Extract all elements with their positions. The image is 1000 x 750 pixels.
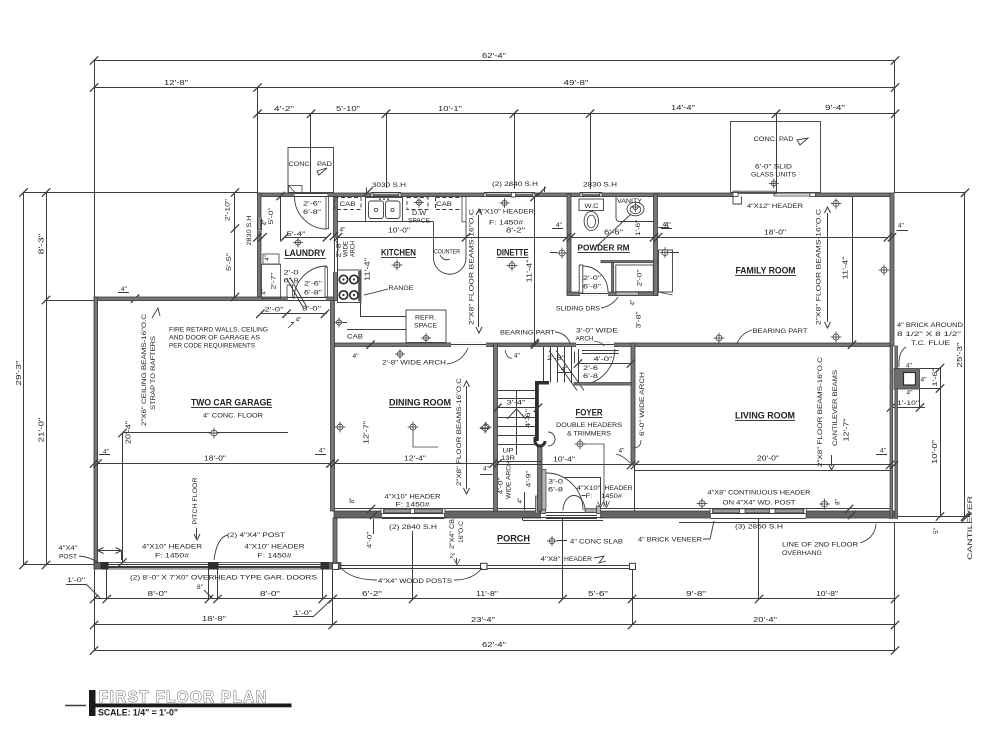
- svg-text:6'-8": 6'-8": [304, 290, 323, 297]
- svg-text:& TRIMMERS: & TRIMMERS: [567, 431, 611, 438]
- dimension 62'-4" overall top: [94, 60, 895, 62]
- svg-text:SLIDING DRS: SLIDING DRS: [556, 306, 600, 313]
- svg-text:4": 4": [483, 466, 490, 473]
- svg-text:1450#: 1450#: [601, 493, 622, 500]
- svg-text:2'-6": 2'-6": [303, 201, 322, 208]
- bottom dim row A: [94, 598, 895, 600]
- svg-text:5'-10": 5'-10": [336, 106, 361, 113]
- svg-text:1'-0": 1'-0": [294, 610, 313, 617]
- porch left wall segment: [333, 518, 337, 563]
- svg-text:4"X4" WOOD POSTS: 4"X4" WOOD POSTS: [378, 578, 453, 585]
- svg-text:11'-8": 11'-8": [476, 591, 499, 598]
- svg-text:3'-4": 3'-4": [507, 400, 527, 407]
- svg-text:8": 8": [835, 499, 842, 505]
- svg-text:4": 4": [619, 448, 626, 455]
- dimension 29'-3" left: [23, 193, 25, 566]
- living room header line: [635, 470, 890, 472]
- svg-text:(2) 2840 S.H: (2) 2840 S.H: [492, 181, 538, 188]
- svg-text:6'-8": 6'-8": [583, 284, 602, 291]
- svg-text:F: 1450#: F: 1450#: [155, 553, 189, 560]
- garage left exterior wall: [94, 297, 98, 569]
- svg-text:18'-8": 18'-8": [202, 616, 227, 623]
- svg-text:62'-4": 62'-4": [482, 53, 507, 60]
- dimension 1'-6" / 10'-0" right: [940, 368, 942, 517]
- range: [338, 270, 362, 303]
- svg-text:HEADER: HEADER: [564, 556, 592, 563]
- front entry door: [541, 510, 600, 518]
- svg-text:14'-4": 14'-4": [671, 105, 696, 112]
- window position dim 2'-10 5'-5 laundry: [234, 193, 236, 298]
- svg-text:BEARING PART: BEARING PART: [500, 330, 555, 337]
- stair right wall lower: [538, 447, 543, 511]
- svg-text:4": 4": [319, 448, 326, 455]
- laundry closet: [262, 264, 281, 298]
- svg-text:4": 4": [262, 220, 269, 226]
- svg-text:6'-6": 6'-6": [604, 230, 624, 237]
- svg-text:4"X8": 4"X8": [541, 556, 562, 563]
- svg-text:ARCH: ARCH: [350, 241, 357, 257]
- title FIRST FLOOR PLAN: [65, 705, 86, 707]
- svg-text:BEARING PART: BEARING PART: [753, 328, 808, 335]
- svg-text:1'-10": 1'-10": [897, 400, 920, 407]
- svg-text:62'-4": 62'-4": [482, 642, 507, 649]
- svg-text:4": 4": [264, 255, 271, 261]
- svg-text:T.C. FLUE: T.C. FLUE: [911, 340, 951, 347]
- svg-text:4"X10" HEADER: 4"X10" HEADER: [385, 494, 441, 501]
- conc pad right: [731, 122, 821, 193]
- svg-text:5'-5": 5'-5": [226, 252, 233, 271]
- svg-text:PAD: PAD: [317, 161, 332, 168]
- label 4 conc slab: [547, 536, 557, 546]
- porch front edge: [339, 565, 631, 567]
- svg-text:8'-2": 8'-2": [506, 228, 526, 235]
- svg-text:5'-6": 5'-6": [588, 591, 609, 598]
- svg-text:10'-4": 10'-4": [553, 457, 576, 464]
- svg-text:F: 1450#: F: 1450#: [396, 502, 430, 509]
- svg-text:29'-3": 29'-3": [16, 360, 23, 386]
- svg-text:2830 S.H: 2830 S.H: [583, 182, 617, 189]
- svg-text:4": 4": [121, 286, 128, 293]
- svg-text:2'-6": 2'-6": [304, 281, 323, 288]
- bearing wall foyer-family: [498, 343, 891, 347]
- svg-text:DOUBLE HEADERS: DOUBLE HEADERS: [556, 422, 622, 429]
- centerline marks family: [831, 198, 842, 209]
- svg-text:4": 4": [340, 227, 347, 234]
- foyer left wall: [494, 343, 498, 511]
- svg-text:REFR.: REFR.: [415, 315, 436, 322]
- kitchen lower counter: [360, 302, 362, 316]
- svg-text:2"X8" FLOOR BEAMS-16"O.C: 2"X8" FLOOR BEAMS-16"O.C: [817, 357, 824, 467]
- bottom dim row C 62'-4: [94, 650, 895, 652]
- svg-text:12'-7": 12'-7": [844, 418, 851, 442]
- dining centerline marks: [335, 422, 346, 433]
- svg-text:6'-8": 6'-8": [303, 209, 322, 216]
- vanity leader line: [597, 214, 631, 246]
- svg-text:6'-0" WIDE ARCH: 6'-0" WIDE ARCH: [639, 372, 646, 436]
- svg-text:PER CODE REQUIREMENTS: PER CODE REQUIREMENTS: [169, 343, 255, 350]
- stair rail: [535, 381, 549, 385]
- svg-text:4'-0": 4'-0": [367, 532, 374, 549]
- laundry stoop: [289, 186, 303, 193]
- foyer under-stair closet walls: [565, 477, 601, 479]
- svg-text:CAB: CAB: [340, 201, 357, 208]
- windows (3) 2850 SH living front: [711, 508, 806, 518]
- garage top / laundry bottom wall: [94, 297, 334, 301]
- powder closet walls: [601, 261, 658, 263]
- svg-text:FAMILY ROOM: FAMILY ROOM: [736, 266, 796, 276]
- porch entry steps: [523, 517, 603, 519]
- svg-text:12'-4": 12'-4": [404, 456, 427, 463]
- svg-text:4" CONC SLAB: 4" CONC SLAB: [570, 539, 624, 546]
- right witness lines: [895, 192, 965, 194]
- svg-text:4": 4": [907, 390, 914, 397]
- svg-text:DINING ROOM: DINING ROOM: [389, 398, 451, 408]
- svg-text:4": 4": [556, 222, 563, 229]
- svg-text:4'-0": 4'-0": [594, 356, 614, 363]
- svg-text:LINE OF 2ND FLOOR: LINE OF 2ND FLOOR: [782, 542, 858, 549]
- svg-text:SCALE: 1/4" = 1'-0": SCALE: 1/4" = 1'-0": [98, 708, 178, 718]
- powder room bottom wall: [567, 292, 658, 296]
- svg-text:CONC. PAD: CONC. PAD: [754, 136, 794, 143]
- svg-text:CAB: CAB: [436, 201, 453, 208]
- svg-text:AND DOOR OF GARAGE AS: AND DOOR OF GARAGE AS: [169, 335, 260, 342]
- closet bottom wall: [574, 383, 632, 386]
- svg-text:4'-2": 4'-2": [274, 106, 295, 113]
- furnace chase: [659, 250, 673, 292]
- svg-text:4" BRICK AROUND: 4" BRICK AROUND: [897, 322, 963, 329]
- svg-text:8 1/2" X 8 1/2": 8 1/2" X 8 1/2": [897, 331, 962, 338]
- kitchen sink: [366, 198, 403, 222]
- TC flue: [894, 369, 920, 390]
- window pair 2840 SH dinette: [484, 193, 535, 197]
- svg-text:4"X10": 4"X10": [577, 485, 602, 492]
- svg-text:5": 5": [933, 527, 940, 534]
- svg-text:(2) 2840 S.H: (2) 2840 S.H: [389, 524, 437, 531]
- svg-text:2'-8": 2'-8": [547, 355, 566, 362]
- svg-text:1'-6": 1'-6": [635, 220, 642, 236]
- svg-text:FOYER: FOYER: [576, 408, 603, 418]
- svg-text:4": 4": [353, 353, 360, 360]
- svg-text:POWDER RM: POWDER RM: [578, 243, 630, 253]
- laundry-garage door: [287, 285, 293, 297]
- dimension row 4'-2 5'-10 10'-1 14'-4 9'-4: [258, 113, 896, 115]
- laundry left exterior wall: [258, 193, 262, 301]
- svg-text:20'-0": 20'-0": [757, 456, 780, 463]
- svg-text:3'-0" WIDE: 3'-0" WIDE: [576, 328, 619, 335]
- svg-text:6'-8: 6'-8: [284, 278, 299, 285]
- foyer closet shelf: [582, 350, 619, 352]
- svg-text:2830 S.H: 2830 S.H: [246, 215, 253, 245]
- svg-text:3'-0: 3'-0: [548, 479, 564, 486]
- svg-text:W.C: W.C: [585, 203, 600, 210]
- svg-text:8'-0": 8'-0": [148, 591, 169, 598]
- svg-text:2"X6" CEILING BEAMS-16"O.C: 2"X6" CEILING BEAMS-16"O.C: [141, 313, 148, 426]
- svg-text:4"X4": 4"X4": [59, 545, 79, 552]
- svg-text:ARCH: ARCH: [576, 336, 594, 343]
- svg-text:2'-0": 2'-0": [265, 307, 285, 314]
- svg-text:10'-0": 10'-0": [388, 228, 411, 235]
- svg-text:21'-0": 21'-0": [39, 417, 46, 443]
- window 3030 SH kitchen: [371, 193, 401, 197]
- dishwasher DW dashed: [407, 198, 428, 210]
- svg-text:10'-8": 10'-8": [816, 591, 839, 598]
- svg-text:8'-3": 8'-3": [39, 233, 46, 255]
- svg-text:5'-4": 5'-4": [287, 231, 307, 238]
- svg-text:WIDE ARCH: WIDE ARCH: [506, 461, 513, 499]
- svg-text:4": 4": [517, 498, 524, 504]
- svg-text:11'-4": 11'-4": [527, 259, 534, 283]
- svg-text:18'-0": 18'-0": [764, 230, 787, 237]
- dimension 8'-3" / 21'-0" left: [46, 193, 48, 566]
- vanity counter: [616, 197, 654, 222]
- svg-text:4" CONC. FLOOR: 4" CONC. FLOOR: [203, 413, 263, 420]
- svg-text:9'-8": 9'-8": [686, 591, 707, 598]
- svg-text:CANTILEVER: CANTILEVER: [967, 496, 974, 560]
- svg-text:12'-7": 12'-7": [364, 420, 371, 444]
- garage 20'-4 dim: [123, 432, 289, 434]
- svg-text:STRAP TO RAFTERS: STRAP TO RAFTERS: [150, 336, 157, 410]
- dining window sill extension: [379, 517, 448, 519]
- svg-text:4": 4": [514, 353, 521, 360]
- foyer right wall: [631, 343, 635, 465]
- powder closet sliding doors: [616, 292, 639, 295]
- svg-text:OVERHANG: OVERHANG: [782, 550, 822, 557]
- svg-text:6'-8: 6'-8: [583, 373, 599, 380]
- svg-text:6'-2": 6'-2": [362, 591, 383, 598]
- kitchen counter edge: [338, 221, 434, 223]
- window 2830 SH laundry (vertical): [257, 218, 262, 231]
- foyer centerline: [575, 439, 586, 450]
- svg-text:8": 8": [349, 498, 356, 504]
- svg-text:D.W: D.W: [412, 210, 427, 217]
- svg-text:2'-0": 2'-0": [637, 270, 644, 287]
- inner face line front wall: [334, 508, 541, 510]
- svg-text:9'-4": 9'-4": [825, 105, 846, 112]
- svg-text:4": 4": [630, 300, 637, 306]
- laundry rear door opening: [295, 193, 328, 197]
- foyer closet door lower: [542, 470, 546, 510]
- svg-text:4'-9": 4'-9": [526, 471, 533, 488]
- svg-text:COUNTER: COUNTER: [434, 249, 460, 256]
- foyer arch opening 3'-0: [576, 343, 614, 347]
- svg-text:2'-8": 2'-8": [336, 241, 343, 258]
- svg-text:2"X8" FLOOR BEAMS-16"O.C: 2"X8" FLOOR BEAMS-16"O.C: [469, 209, 476, 325]
- svg-text:VANITY: VANITY: [617, 198, 642, 205]
- svg-text:F: 1450#: F: 1450#: [489, 220, 523, 227]
- stair lower treads: [498, 390, 537, 392]
- svg-text:12'-8": 12'-8": [164, 80, 189, 87]
- laundry-kitchen wall: [334, 197, 338, 301]
- dimension 25'-3" right: [964, 193, 966, 517]
- top exterior wall: [258, 193, 891, 197]
- svg-text:PITCH FLOOR: PITCH FLOOR: [192, 477, 199, 524]
- svg-text:8'-0": 8'-0": [260, 591, 281, 598]
- svg-text:DINETTE: DINETTE: [497, 248, 529, 258]
- svg-text:1'-6": 1'-6": [932, 368, 939, 387]
- svg-text:23'-4": 23'-4": [471, 617, 496, 624]
- bottom witness lines: [106, 569, 108, 599]
- 2nd floor overhang line: [679, 522, 970, 524]
- svg-text:16"O.C: 16"O.C: [458, 520, 465, 543]
- svg-text:WIDE: WIDE: [343, 241, 350, 257]
- refrigerator space: [406, 310, 446, 343]
- svg-text:2'-8" WIDE ARCH: 2'-8" WIDE ARCH: [382, 360, 446, 367]
- left witness lines: [24, 192, 258, 194]
- svg-text:4": 4": [296, 317, 303, 324]
- svg-text:13R: 13R: [501, 455, 515, 462]
- svg-text:4": 4": [921, 377, 928, 384]
- svg-text:6'-0" SLID: 6'-0" SLID: [755, 164, 792, 171]
- svg-text:4'-6": 4'-6": [525, 408, 532, 428]
- svg-text:(3) 2850 S.H: (3) 2850 S.H: [735, 524, 783, 531]
- svg-text:KITCHEN: KITCHEN: [381, 248, 416, 258]
- svg-text:2'-10": 2'-10": [225, 198, 232, 221]
- svg-text:4"X10" HEADER: 4"X10" HEADER: [478, 209, 534, 216]
- svg-text:GLASS UNITS: GLASS UNITS: [751, 172, 796, 179]
- svg-text:4"X8" CONTINUOUS HEADER: 4"X8" CONTINUOUS HEADER: [708, 490, 811, 497]
- svg-text:10'-0": 10'-0": [932, 439, 939, 464]
- svg-text:49'-8": 49'-8": [564, 80, 590, 87]
- laundry interior divider: [280, 197, 282, 240]
- svg-text:20'-4": 20'-4": [126, 420, 133, 444]
- garage door posts: [101, 562, 109, 570]
- svg-text:10'-1": 10'-1": [438, 106, 463, 113]
- laundry recess box: [263, 254, 279, 264]
- svg-text:11'-4": 11'-4": [365, 257, 372, 281]
- kitchen-dining divider wall: [335, 343, 494, 347]
- svg-text:2"X8" FLOOR BEAMS-16"O.C: 2"X8" FLOOR BEAMS-16"O.C: [456, 378, 463, 486]
- svg-text:4"X12" HEADER: 4"X12" HEADER: [747, 203, 803, 210]
- svg-text:4": 4": [261, 289, 268, 295]
- svg-text:4": 4": [880, 448, 887, 455]
- svg-text:RANGE: RANGE: [389, 285, 414, 292]
- powder room left wall: [567, 194, 571, 295]
- kitchen west arch opening: [333, 238, 338, 272]
- foyer closet door: [578, 349, 580, 385]
- vanity sink: [627, 202, 644, 216]
- svg-text:4"X10" HEADER: 4"X10" HEADER: [142, 544, 202, 551]
- svg-text:2"X4" CB: 2"X4" CB: [449, 519, 456, 549]
- family room west wall: [654, 194, 658, 296]
- svg-text:2": 2": [450, 553, 456, 560]
- svg-text:11'-4": 11'-4": [843, 256, 850, 280]
- centerline marks dinette walls: [557, 248, 568, 259]
- svg-text:8": 8": [197, 584, 204, 591]
- svg-text:POST: POST: [59, 554, 77, 561]
- svg-text:FIRE RETARD WALLS, CEILING: FIRE RETARD WALLS, CEILING: [169, 327, 268, 334]
- cabinet CAB right dashed: [436, 197, 462, 199]
- svg-text:4"X10" HEADER: 4"X10" HEADER: [245, 544, 305, 551]
- laundry rear door swing: [295, 197, 328, 229]
- svg-text:20'-4": 20'-4": [753, 617, 778, 624]
- right exterior wall: [890, 193, 894, 346]
- svg-text:2'-0": 2'-0": [583, 275, 602, 282]
- svg-text:UP: UP: [503, 448, 515, 455]
- svg-text:3'-0": 3'-0": [302, 306, 322, 313]
- laundry-garage door opening: [288, 297, 326, 301]
- svg-text:LIVING ROOM: LIVING ROOM: [735, 411, 795, 421]
- sliding door interior step: [733, 197, 742, 204]
- powder door opening: [580, 292, 608, 296]
- bottom dim row B 18'-8 23'-4 20'-4: [94, 624, 895, 626]
- sliding glass door: [734, 193, 814, 197]
- svg-text:3030 S.H: 3030 S.H: [372, 182, 406, 189]
- svg-text:CAB: CAB: [347, 334, 364, 341]
- svg-text:CANTILEVER BEAMS: CANTILEVER BEAMS: [832, 369, 839, 446]
- svg-text:2"X8" FLOOR BEAMS-16"O.C: 2"X8" FLOOR BEAMS-16"O.C: [816, 209, 823, 325]
- svg-text:(2) 4"X4" POST: (2) 4"X4" POST: [227, 532, 285, 539]
- conc pad left: [288, 148, 334, 193]
- svg-text:18'-0": 18'-0": [204, 456, 227, 463]
- svg-text:F:: F:: [586, 493, 593, 500]
- cabinet CAB left dashed: [335, 198, 362, 210]
- svg-text:ON 4"X4" WD. POST: ON 4"X4" WD. POST: [723, 500, 796, 507]
- mini dim at garage door left: [98, 550, 122, 552]
- stair upper treads: [543, 347, 545, 383]
- svg-text:25'-3": 25'-3": [957, 342, 964, 368]
- svg-text:2'-6: 2'-6: [583, 365, 599, 372]
- svg-text:6'-8: 6'-8: [548, 487, 564, 494]
- svg-text:LAUNDRY: LAUNDRY: [285, 248, 326, 258]
- svg-text:3'-8": 3'-8": [636, 312, 643, 329]
- svg-text:4": 4": [561, 366, 568, 373]
- toilet WC: [579, 199, 604, 211]
- window pair 2840 SH dining front: [382, 508, 444, 518]
- svg-text:2'-7": 2'-7": [270, 273, 277, 290]
- window 2830 SH powder room: [580, 193, 602, 197]
- garage-dining wall: [331, 301, 335, 511]
- svg-text:SPACE: SPACE: [414, 323, 437, 330]
- svg-text:1'-0": 1'-0": [67, 577, 86, 584]
- svg-text:HEADER: HEADER: [605, 485, 633, 492]
- dimension row 12'-8" / 49'-8": [94, 87, 895, 89]
- svg-text:TWO CAR GARAGE: TWO CAR GARAGE: [191, 398, 272, 408]
- stair landing edge: [498, 461, 543, 463]
- witness lines from top dims: [94, 61, 96, 298]
- svg-text:PORCH: PORCH: [497, 534, 530, 544]
- svg-text:5'-0": 5'-0": [268, 208, 275, 225]
- powder door leaf and swing: [579, 265, 583, 293]
- svg-text:FIRST FLOOR PLAN: FIRST FLOOR PLAN: [99, 689, 268, 706]
- svg-text:4" BRICK VENEER: 4" BRICK VENEER: [638, 537, 702, 544]
- front wall dining-foyer-living: [334, 511, 895, 518]
- svg-text:4'-0": 4'-0": [498, 478, 505, 495]
- garage bottom wall and overhead doors: [94, 563, 341, 570]
- svg-text:F: 1450#: F: 1450#: [258, 553, 292, 560]
- kitchen-dining arch opening: [451, 343, 486, 347]
- svg-text:CONC.: CONC.: [289, 161, 312, 168]
- svg-text:2'-0: 2'-0: [284, 270, 299, 277]
- svg-text:4": 4": [898, 223, 905, 230]
- svg-text:(2) 8'-0" X 7'X0" OVERHEAD: (2) 8'-0" X 7'X0" OVERHEAD TYPE GAR. DOO…: [130, 575, 318, 582]
